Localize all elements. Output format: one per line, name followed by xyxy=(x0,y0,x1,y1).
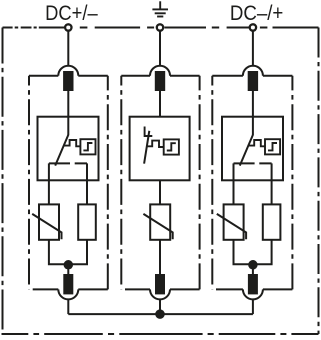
disconnector box U1 xyxy=(38,117,99,181)
module 2 box top edge xyxy=(121,75,199,77)
varistor R3 xyxy=(224,204,244,239)
varistor R3 diagonal xyxy=(217,214,246,239)
module 2 bottom plug arc xyxy=(150,289,170,299)
svg-text:DC–/+: DC–/+ xyxy=(230,2,284,25)
module 3 box right edge xyxy=(291,76,293,290)
wire varistor to plug 2 xyxy=(159,240,161,275)
contact bar 3 xyxy=(234,163,272,204)
wire terminal3 down xyxy=(252,31,254,66)
switch blade 3 xyxy=(240,135,253,166)
monitor box 1 xyxy=(80,139,95,154)
series element F1 xyxy=(78,204,96,239)
node junction 1 xyxy=(64,260,74,270)
linkage 2 xyxy=(147,141,164,147)
wire terminal2 down xyxy=(159,31,161,66)
wire plug to switch 3 xyxy=(252,91,254,135)
module 2 box bottom edge xyxy=(125,288,200,290)
wire varistor down 1 xyxy=(49,240,87,264)
module 2 box left edge xyxy=(120,76,122,290)
module 1 box bottom edge xyxy=(33,288,108,290)
monitor box 2 xyxy=(164,139,179,154)
module 2 box right edge xyxy=(199,76,201,290)
varistor R1 xyxy=(39,204,59,239)
node junction 3 xyxy=(248,260,258,270)
outer border right edge xyxy=(318,28,320,335)
wire terminal1 down xyxy=(67,31,69,66)
wire bottom plug to bus 3 xyxy=(252,299,254,314)
step symbol 2 xyxy=(167,143,176,150)
bottom plug contact 2 xyxy=(155,274,165,294)
wire plug to box 2 xyxy=(159,91,161,117)
module 3 box top edge xyxy=(212,75,292,77)
top plug contact 1 xyxy=(63,71,73,91)
top plug contact 2 xyxy=(155,71,165,91)
bottom bus wire xyxy=(68,313,253,315)
varistor R2 diagonal xyxy=(143,214,172,239)
terminal circle DC-/+ xyxy=(250,24,256,30)
wire box to varistor 2 xyxy=(159,180,161,204)
bus node junction xyxy=(155,309,165,319)
varistor R2 xyxy=(150,204,170,239)
module 1 box right edge xyxy=(107,76,109,290)
module 1 top plug arc xyxy=(58,66,78,76)
wire plug to switch 1 xyxy=(67,91,69,135)
top plug contact 3 xyxy=(248,71,258,91)
terminal circle ground xyxy=(157,24,163,30)
module 1 box top edge xyxy=(29,75,108,77)
switch blade 2 xyxy=(144,131,149,164)
module 3 top plug arc xyxy=(243,66,263,76)
switch blade 1 xyxy=(55,135,68,166)
terminal circle DC+/- xyxy=(65,24,71,30)
contact stub 2 xyxy=(145,127,153,137)
disconnector box U3 xyxy=(222,117,283,181)
module 1 box left edge xyxy=(28,76,30,290)
module 1 bottom plug arc xyxy=(58,289,78,299)
step symbol 1 xyxy=(83,143,92,150)
module 3 bottom plug arc xyxy=(243,289,263,299)
monitor box 3 xyxy=(265,139,280,154)
wire bottom plug to bus 1 xyxy=(67,299,69,314)
linkage 1 xyxy=(64,140,81,146)
outer border top edge xyxy=(3,27,65,29)
bottom plug contact 1 xyxy=(63,274,73,294)
outer border left edge xyxy=(2,28,4,335)
ground symbol xyxy=(152,1,168,16)
disconnector box U2 xyxy=(130,117,190,181)
step symbol 3 xyxy=(268,143,277,150)
bottom plug contact 3 xyxy=(248,274,258,294)
wire bottom plug to bus 2 xyxy=(159,299,161,314)
series element F3 xyxy=(263,204,281,239)
wire varistor down 3 xyxy=(234,240,272,264)
slash descender masks xyxy=(79,21,88,26)
linkage 3 xyxy=(248,140,265,146)
module 3 box left edge xyxy=(211,76,213,290)
module 2 top plug arc xyxy=(150,66,170,76)
svg-text:DC+/–: DC+/– xyxy=(45,2,98,25)
module 3 box bottom edge xyxy=(216,288,292,290)
wire node to plug 1 xyxy=(67,265,69,275)
wire node to plug 3 xyxy=(252,265,254,275)
outer border bottom edge xyxy=(2,333,319,335)
varistor R1 diagonal xyxy=(32,214,61,239)
contact bar 1 xyxy=(49,163,87,204)
